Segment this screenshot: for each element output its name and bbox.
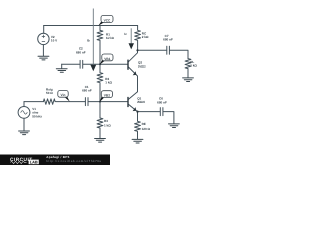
transistor Q2 emitter arrow xyxy=(133,71,137,75)
wire V2 top stub xyxy=(43,26,45,34)
wire V1 bottom xyxy=(23,118,25,130)
wire C2 to Q2 base xyxy=(83,63,128,65)
svg-text:Vin: Vin xyxy=(61,93,66,97)
resistor R1 xyxy=(97,26,103,65)
net flag VCC xyxy=(98,15,113,25)
capacitor C6 xyxy=(160,108,163,116)
ground below R3 xyxy=(95,139,106,143)
resistor R3 xyxy=(97,102,103,138)
transistor Q2 collector xyxy=(128,50,137,62)
wire emitter node to C6 xyxy=(138,111,161,113)
junction node VB1 xyxy=(99,63,101,65)
svg-text:50 Ω: 50 Ω xyxy=(46,91,53,95)
wire C7 to RL xyxy=(170,50,188,58)
svg-text:http://circuitlab.com/c/7hk76u: http://circuitlab.com/c/7hk76u xyxy=(46,159,101,163)
junction node VB2 xyxy=(99,101,101,103)
wire collector node to C7 xyxy=(138,49,167,51)
resistor RC xyxy=(135,26,141,51)
wire VB1 row: C2 ground to C2 xyxy=(62,63,80,65)
svg-text:VCC: VCC xyxy=(104,18,111,22)
transistor Q2 emitter xyxy=(128,67,137,92)
transistor Q2 base bar xyxy=(127,60,129,70)
ground below RE xyxy=(132,139,143,143)
capacitor C2 xyxy=(80,60,83,68)
capacitor C1 xyxy=(85,98,88,106)
svg-text:680 nF: 680 nF xyxy=(76,50,86,54)
wire Rsig to C1 xyxy=(56,101,86,103)
voltage source V1 xyxy=(18,107,30,119)
svg-text:RE: RE xyxy=(142,122,146,126)
watermark banner xyxy=(0,155,110,166)
svg-text:VB2: VB2 xyxy=(104,94,110,98)
wire V1 top stub xyxy=(23,102,25,107)
transistor Q1 emitter xyxy=(128,104,137,111)
ground at C2 xyxy=(56,69,67,73)
wire C6 to ground xyxy=(163,112,174,124)
svg-text:2N2222: 2N2222 xyxy=(138,64,146,68)
ground at C6 xyxy=(169,124,180,128)
svg-text:2N2222: 2N2222 xyxy=(137,100,145,104)
transistor Q1 emitter arrow xyxy=(133,107,137,111)
resistor RE xyxy=(135,112,141,139)
svg-text:Ib: Ib xyxy=(87,39,90,43)
svg-text:680 nF: 680 nF xyxy=(157,100,167,104)
svg-text:1 kΩ: 1 kΩ xyxy=(190,63,197,67)
current probe Ic arrow xyxy=(130,28,132,43)
net flag Vin xyxy=(58,90,70,101)
wire C2 ground stub xyxy=(61,64,63,68)
resistor R2 xyxy=(97,64,103,101)
transistor Q1 base bar xyxy=(127,97,129,107)
svg-text:680 nF: 680 nF xyxy=(163,38,173,42)
net flag VB1 xyxy=(100,54,113,64)
svg-text:10 V: 10 V xyxy=(51,39,58,43)
voltage source V2 xyxy=(38,33,49,44)
svg-text:VB1: VB1 xyxy=(104,57,110,61)
current probe Ib arrow xyxy=(92,9,94,65)
transistor Q1 collector xyxy=(128,92,137,100)
resistor RL xyxy=(185,59,191,78)
junction node collector/C7 xyxy=(136,49,138,51)
svg-text:LAB: LAB xyxy=(30,160,38,165)
ground below V1 xyxy=(19,131,30,135)
svg-text:1 kΩ: 1 kΩ xyxy=(105,81,112,85)
capacitor C7 xyxy=(167,46,170,54)
ground below V2 xyxy=(38,56,49,60)
wire C1 to Q1 base xyxy=(88,101,128,103)
svg-text:50 kHz: 50 kHz xyxy=(32,114,42,118)
svg-text:1 kΩ: 1 kΩ xyxy=(104,124,111,128)
svg-text:680 nF: 680 nF xyxy=(82,89,92,93)
net flag VB2 xyxy=(100,91,113,102)
resistor Rsig xyxy=(43,99,55,104)
ground below RL xyxy=(183,78,194,82)
wire V2 bottom xyxy=(42,45,44,56)
svg-text:8.2 kΩ: 8.2 kΩ xyxy=(106,36,114,40)
wire top rail VCC xyxy=(44,25,138,27)
svg-text:120 Ω: 120 Ω xyxy=(142,127,151,131)
svg-text:2 kΩ: 2 kΩ xyxy=(142,35,149,39)
svg-text:Ic: Ic xyxy=(124,32,127,36)
junction node emitter/C6 xyxy=(136,111,138,113)
wire VB2 row: V1 to Rsig xyxy=(24,101,43,103)
